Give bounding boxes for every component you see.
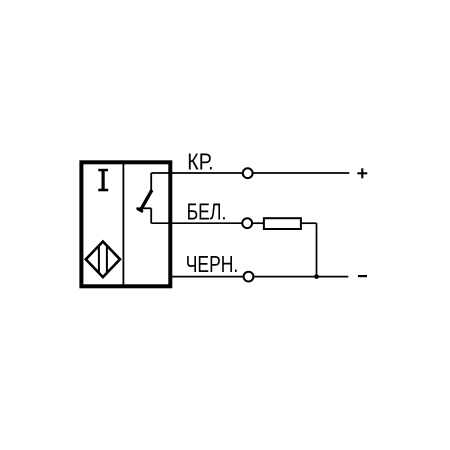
terminal circle on white lead [242, 218, 252, 228]
wire: vertical drop to minus rail [316, 223, 318, 276]
sensor internal divider [122, 164, 124, 287]
svg-text:КР.: КР. [187, 149, 213, 175]
switch contact: bottom stub [136, 207, 151, 209]
svg-text:ЧЕРН.: ЧЕРН. [186, 251, 239, 277]
switch contact: blade end tick [137, 209, 143, 212]
junction dot [314, 274, 319, 279]
svg-text:БЕЛ.: БЕЛ. [187, 198, 227, 224]
terminal circle on red lead [243, 168, 253, 178]
plus terminal [357, 168, 367, 178]
wire: white lead (BEL) left segment [151, 222, 242, 224]
wire: black lead (CHERN) left segment [172, 276, 243, 278]
sensor body box [81, 162, 170, 286]
wire: red lead right segment [253, 172, 349, 174]
minus terminal [358, 275, 367, 277]
label KR. [187, 149, 213, 175]
switch contact: bottom lead [150, 208, 152, 223]
inductive sensor symbol (diamond) [86, 242, 120, 278]
inductive symbol left chord [98, 246, 100, 273]
label BEL. [187, 198, 227, 224]
resistor (load) [264, 218, 301, 229]
wire: red lead (KR) left segment [151, 172, 242, 174]
wire: black lead right segment [254, 276, 348, 278]
inductive symbol right chord [106, 246, 108, 273]
switch contact: top lead [150, 173, 152, 191]
sensor class label I [98, 169, 108, 192]
label CHERN. [186, 251, 239, 277]
wire: resistor to corner [302, 222, 317, 224]
terminal circle on black lead [244, 272, 254, 282]
wire: white lead to resistor [253, 222, 264, 224]
switch contact: blade [140, 190, 152, 211]
